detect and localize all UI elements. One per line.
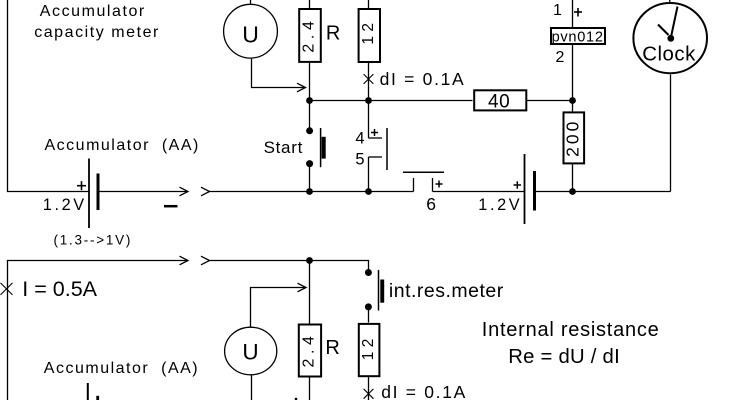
svg-text:1: 1 <box>553 2 562 19</box>
wire R5 top to bus <box>309 261 311 325</box>
battery B3 long plate <box>87 383 89 400</box>
wire clock vertical <box>670 75 672 192</box>
junction artifact dot <box>295 398 297 400</box>
svg-text:200: 200 <box>562 119 582 157</box>
battery B3 short plate <box>96 396 99 400</box>
battery B1 plus sign <box>77 181 86 190</box>
wire R4 bottom <box>572 165 574 192</box>
voltmeter U2 <box>225 327 277 375</box>
svg-text:Clock: Clock <box>642 44 696 66</box>
svg-text:Accumulator (AA): Accumulator (AA) <box>45 137 200 154</box>
battery B1 long plate (+) <box>88 159 90 229</box>
svg-text:1.2V: 1.2V <box>478 196 522 214</box>
wire U1 top stub <box>250 0 252 4</box>
measurement point x mark dI (bottom) <box>364 389 374 399</box>
svg-text:R: R <box>325 337 339 359</box>
wire U2 bottom stub <box>251 375 253 400</box>
junction dot upper bus / R2 <box>365 97 372 104</box>
wire R1 bottom to Start contact <box>309 62 311 132</box>
battery cell 6 plate <box>403 171 444 173</box>
svg-text:Accumulator: Accumulator <box>40 3 146 20</box>
changeover contact 4/5 <box>369 128 388 170</box>
wire left vertical (top circuit) <box>8 0 90 192</box>
voltmeter U1 <box>224 4 278 58</box>
resistor R6 12 ohm <box>359 324 380 376</box>
push button int.res.meter <box>365 269 384 311</box>
junction dot upper bus / R1 <box>306 97 313 104</box>
svg-text:12: 12 <box>360 334 377 360</box>
clock face <box>633 3 707 73</box>
svg-text:dI = 0.1A: dI = 0.1A <box>380 69 466 89</box>
svg-text:U: U <box>242 22 259 48</box>
wire cell6 left stub <box>413 178 415 192</box>
svg-text:6: 6 <box>426 194 436 214</box>
resistor R1 2.4 ohm <box>299 9 321 62</box>
svg-text:R: R <box>326 23 340 45</box>
arrowhead on wire (bottom circuit) <box>180 256 189 265</box>
wire upper bus <box>310 100 473 102</box>
svg-text:I = 0.5A: I = 0.5A <box>22 277 97 301</box>
wire top bus (bottom circuit) <box>210 261 369 270</box>
wire button to R6 <box>368 307 370 323</box>
svg-text:Internal resistance: Internal resistance <box>482 319 660 341</box>
wire U1 probe with arrow <box>252 59 306 88</box>
push button Start <box>306 127 326 167</box>
svg-text:Accumulator (AA): Accumulator (AA) <box>44 360 199 377</box>
junction dot R5 column <box>306 257 313 264</box>
svg-text:Re = dU / dI: Re = dU / dI <box>508 346 620 368</box>
arrowhead on wire <box>180 187 189 196</box>
battery B2 plus sign <box>514 181 522 188</box>
svg-text:(1.3-->1V): (1.3-->1V) <box>54 232 133 247</box>
junction dot at Start column <box>306 188 313 195</box>
wire R5 bottom stub <box>309 377 311 400</box>
wire U2 probe with arrow <box>251 288 307 327</box>
clock minute hand <box>671 7 678 38</box>
svg-text:2.4: 2.4 <box>301 331 318 367</box>
chevron connector (bottom circuit) <box>201 256 210 265</box>
svg-text:pvn012: pvn012 <box>552 30 604 46</box>
svg-text:4: 4 <box>355 130 364 148</box>
wire R2 top stub <box>368 0 370 8</box>
svg-text:Start: Start <box>264 138 303 157</box>
resistor R4 200 ohm <box>562 112 584 163</box>
wire R6 bottom stub <box>368 376 370 400</box>
wire B2 to clock column <box>536 191 671 193</box>
wire R1 top stub <box>309 0 311 8</box>
wire clock top stub <box>669 0 671 3</box>
wire from B1 to arrow <box>100 191 189 193</box>
svg-text:capacity meter: capacity meter <box>34 24 160 41</box>
title text "Accumulator capacity meter" <box>34 3 160 41</box>
svg-text:40: 40 <box>488 91 510 112</box>
battery B2 short plate (-) <box>533 171 536 211</box>
junction dot at contact 4/5 column <box>365 188 372 195</box>
wire R2 bottom to contact 4 <box>368 61 370 138</box>
wire contact 5 to bus <box>368 157 370 192</box>
cell6 plus sign <box>436 181 443 188</box>
svg-text:1.2V: 1.2V <box>43 196 87 214</box>
svg-text:5: 5 <box>355 151 364 169</box>
junction dot pvn column <box>569 97 576 104</box>
battery B2 long plate (+) <box>524 154 526 224</box>
wire cell6 to battery B2 <box>433 191 525 193</box>
wire 40 box to pvn node <box>527 100 573 102</box>
measurement point x mark I <box>1 283 13 295</box>
junction dot bottom bus / R4 <box>569 188 576 195</box>
svg-text:int.res.meter: int.res.meter <box>389 280 504 302</box>
resistor R5 2.4 ohm <box>299 325 321 377</box>
pin 1 plus sign <box>574 8 582 17</box>
wire left vertical (bottom circuit) <box>8 261 189 400</box>
svg-text:U: U <box>242 339 258 364</box>
svg-text:dI = 0.1A: dI = 0.1A <box>381 382 467 400</box>
clock hour hand <box>658 25 669 36</box>
svg-text:12: 12 <box>360 19 377 45</box>
svg-text:2: 2 <box>556 49 565 66</box>
resistor R2 12 ohm <box>359 9 380 62</box>
timer module pvn012 <box>551 28 605 46</box>
battery B1 short plate (-) <box>97 174 100 211</box>
wire main bottom bus (top circuit) <box>210 191 414 193</box>
measurement point x mark dI <box>364 74 374 84</box>
svg-text:2.4: 2.4 <box>300 17 317 53</box>
chevron connector <box>201 187 210 196</box>
battery B1 minus sign <box>164 205 178 208</box>
contact 4 plus sign <box>371 129 378 136</box>
wire cell6 right stub <box>432 178 434 192</box>
resistor R3 40 ohm <box>474 90 526 112</box>
clock center pivot dot <box>667 35 674 42</box>
wire pvn012 pin2 to node <box>572 45 574 113</box>
wire pvn012 pin1 stub <box>572 0 574 27</box>
wire Start lower contact to bus <box>309 164 311 192</box>
